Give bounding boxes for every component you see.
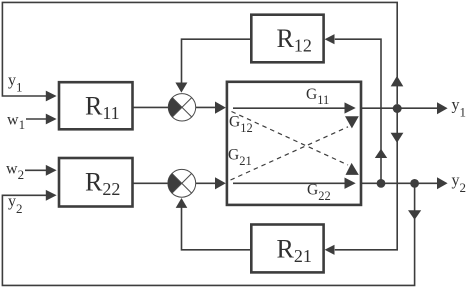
node C (y2 junction to feedback) — [410, 179, 419, 188]
wire summer S2 to G block — [196, 182, 216, 184]
svg-text:w1: w1 — [7, 111, 25, 132]
block R12 — [251, 15, 323, 63]
wire w2 input — [25, 169, 47, 171]
arrowhead G22 — [345, 178, 356, 189]
arrowhead y2 output — [437, 177, 448, 189]
arrowhead G21 — [345, 116, 359, 128]
wire R12 output to summer S1 (left then down) — [182, 39, 252, 83]
arrowhead into R21 right side — [325, 245, 335, 255]
arrowhead S1 output into G — [215, 102, 226, 114]
wire y1 feedback (node A up, across top, down left edge, into y1 input) — [2, 2, 397, 104]
arrowhead w1 input into R11 — [46, 114, 57, 125]
arrowhead down on y2 feedback line — [408, 210, 421, 220]
arrowhead down on R21 input line — [391, 133, 404, 143]
svg-text:y2: y2 — [8, 193, 23, 216]
arrowhead R21 branch up into S2 — [176, 198, 188, 208]
summing junction S1 — [168, 94, 195, 121]
block G (process) — [227, 82, 361, 205]
wire G11 path inside G — [233, 107, 345, 109]
arrowhead S2 output into G — [215, 177, 226, 189]
block R21 — [251, 225, 323, 273]
block R22 — [59, 158, 133, 207]
wire R12 input from node B (up then left) — [335, 39, 381, 179]
node A (y1 junction) — [393, 104, 402, 113]
arrowhead into R12 right side — [325, 34, 335, 44]
svg-text:y2: y2 — [452, 172, 467, 195]
wire y2 feedback (node C down, across bottom, up left edge, into y2 input) — [2, 188, 414, 286]
svg-text:w2: w2 — [6, 160, 24, 182]
wire y1 output line — [361, 107, 438, 109]
wire R21 output to summer S2 (left then up) — [182, 208, 252, 250]
arrowhead G12 — [346, 163, 359, 175]
wire w1 input — [26, 118, 47, 120]
wire G22 path inside G — [233, 182, 345, 184]
arrowhead y1 output — [437, 102, 448, 114]
arrowhead G11 — [345, 102, 356, 113]
wire G12 path (dashed diagonal) — [232, 112, 349, 166]
arrowhead y1 input into R11 — [46, 91, 57, 102]
summing junction S2 — [168, 169, 196, 197]
wire R11 output to summer S1 — [133, 106, 169, 108]
block R11 — [59, 82, 133, 129]
wire R22 output to summer S2 — [133, 182, 169, 184]
arrowhead up on R12 input line — [375, 149, 387, 158]
arrowhead w2 input into R22 — [46, 165, 57, 176]
arrowhead up on y1 feedback line — [391, 76, 404, 87]
wire summer S1 to G block — [196, 106, 216, 108]
arrowhead y2 input into R22 — [46, 190, 57, 201]
svg-text:y1: y1 — [8, 72, 23, 95]
node B (y2 junction to R12) — [377, 179, 386, 188]
wire R21 input from node A (down then left) — [335, 112, 397, 250]
wire G21 path (dashed diagonal) — [231, 127, 349, 180]
wire y2 output line — [361, 182, 438, 184]
arrowhead R12 branch down into S1 — [175, 83, 187, 93]
svg-text:y1: y1 — [452, 97, 467, 120]
